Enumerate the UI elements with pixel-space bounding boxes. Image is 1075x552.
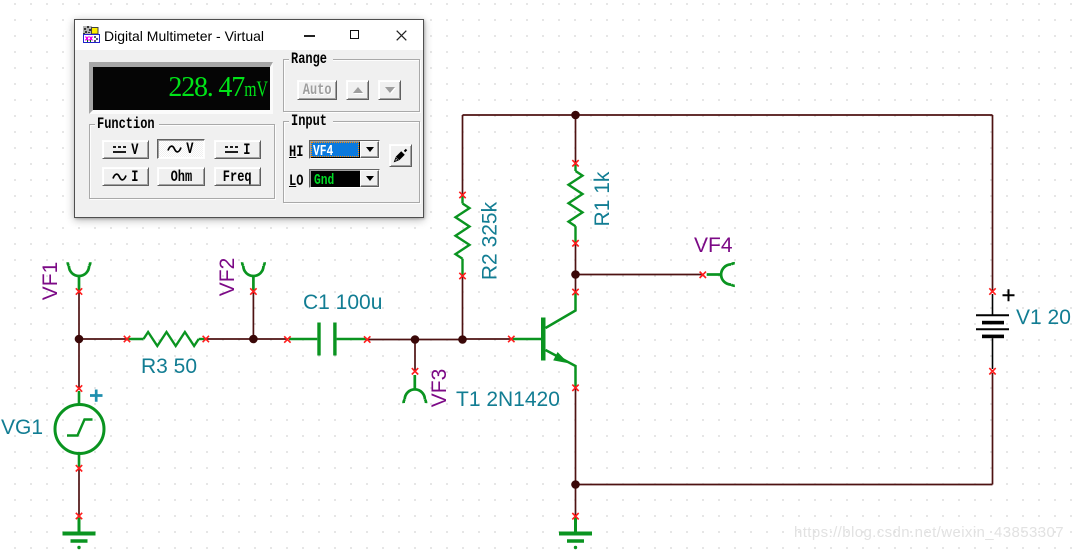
pin mark VF3	[412, 368, 418, 374]
probe VF1	[68, 262, 90, 290]
wire collector node to VF4	[576, 274, 703, 276]
pin mark R2 top	[459, 192, 465, 198]
wire node VF2 to C1	[253, 338, 287, 340]
wire VF2 probe stub	[252, 292, 254, 339]
capacitor C1	[289, 323, 367, 356]
multimeter dialog window	[74, 19, 424, 218]
label V1 value	[1016, 306, 1071, 330]
pin mark VF1	[76, 288, 82, 294]
resistor R3	[127, 332, 206, 346]
label R3 value	[141, 355, 197, 379]
pin mark VF2	[250, 288, 256, 294]
wire R3 to node VF2	[206, 338, 253, 340]
pin mark T1 collector	[572, 289, 578, 295]
label VF2	[216, 256, 240, 298]
label T1 value	[456, 388, 560, 412]
label C1 value	[303, 291, 382, 315]
wire top rail to R1	[575, 115, 577, 163]
pin mark R2 bottom	[459, 273, 465, 279]
junction node VF1	[75, 335, 84, 344]
resistor R1	[569, 163, 583, 243]
wire node VF3 down to probe	[414, 340, 416, 372]
probe VF2	[242, 262, 264, 290]
wire C1 to node VF3	[367, 339, 415, 341]
plus sign V1	[1003, 289, 1015, 301]
pin mark C1 right	[364, 336, 370, 342]
wire top rail to R2	[462, 115, 464, 195]
battery V1	[976, 294, 1009, 369]
junction node VF3	[411, 335, 420, 344]
label VF4	[694, 234, 733, 258]
pin mark T1 emitter	[572, 385, 578, 391]
label VF3	[428, 367, 452, 409]
pin mark V1 minus	[989, 368, 995, 374]
pin mark VF4	[700, 272, 706, 278]
pin mark T1 base	[508, 336, 514, 342]
wire top rail	[463, 114, 993, 116]
wire emitter node to ground	[575, 485, 577, 517]
label VG1	[1, 416, 43, 440]
pin mark VG1 plus	[76, 385, 82, 391]
watermark	[794, 524, 1064, 541]
pin mark R1 bottom	[572, 240, 578, 246]
generator VG1	[55, 391, 104, 467]
wire node R2 to base	[463, 338, 512, 340]
pin mark GND2	[572, 513, 578, 519]
ground GND2	[559, 518, 592, 550]
wire bottom rail	[576, 484, 993, 486]
pin mark C1 left	[284, 336, 290, 342]
pin mark R3 right	[203, 336, 209, 342]
wire VF1 to main node	[78, 292, 80, 339]
label R2 value	[479, 199, 503, 284]
wire R2 to main rail	[462, 276, 464, 340]
junction node collector	[571, 270, 580, 279]
wire main node to R3	[79, 338, 127, 340]
junction node emitter/bottom rail	[571, 480, 580, 489]
junction node R2/base	[458, 335, 467, 344]
transistor T1	[511, 292, 575, 388]
pin mark R1 top	[572, 160, 578, 166]
wire battery to bottom rail	[992, 373, 994, 485]
pin mark VG1 minus	[76, 465, 82, 471]
resistor R2	[456, 195, 470, 276]
wire VG1 to ground	[78, 469, 80, 516]
wire node VF3 to node R2	[415, 339, 463, 341]
label R1 value	[591, 169, 615, 229]
wire R1 to collector node	[575, 243, 577, 274]
label VF1	[39, 260, 63, 302]
wire right rail down to battery	[992, 115, 994, 291]
junction node top rail	[571, 111, 580, 120]
wire collector node down	[575, 275, 577, 293]
wire VG1 branch top	[78, 339, 80, 388]
probe VF3	[404, 375, 426, 403]
pin mark GND1	[76, 513, 82, 519]
wire emitter down	[575, 388, 577, 485]
pin mark R3 left	[124, 336, 130, 342]
junction node VF2	[249, 335, 258, 344]
probe VF4	[707, 263, 735, 285]
pin mark V1 plus	[989, 288, 995, 294]
plus sign VG1	[90, 390, 103, 402]
ground GND1	[63, 518, 96, 550]
